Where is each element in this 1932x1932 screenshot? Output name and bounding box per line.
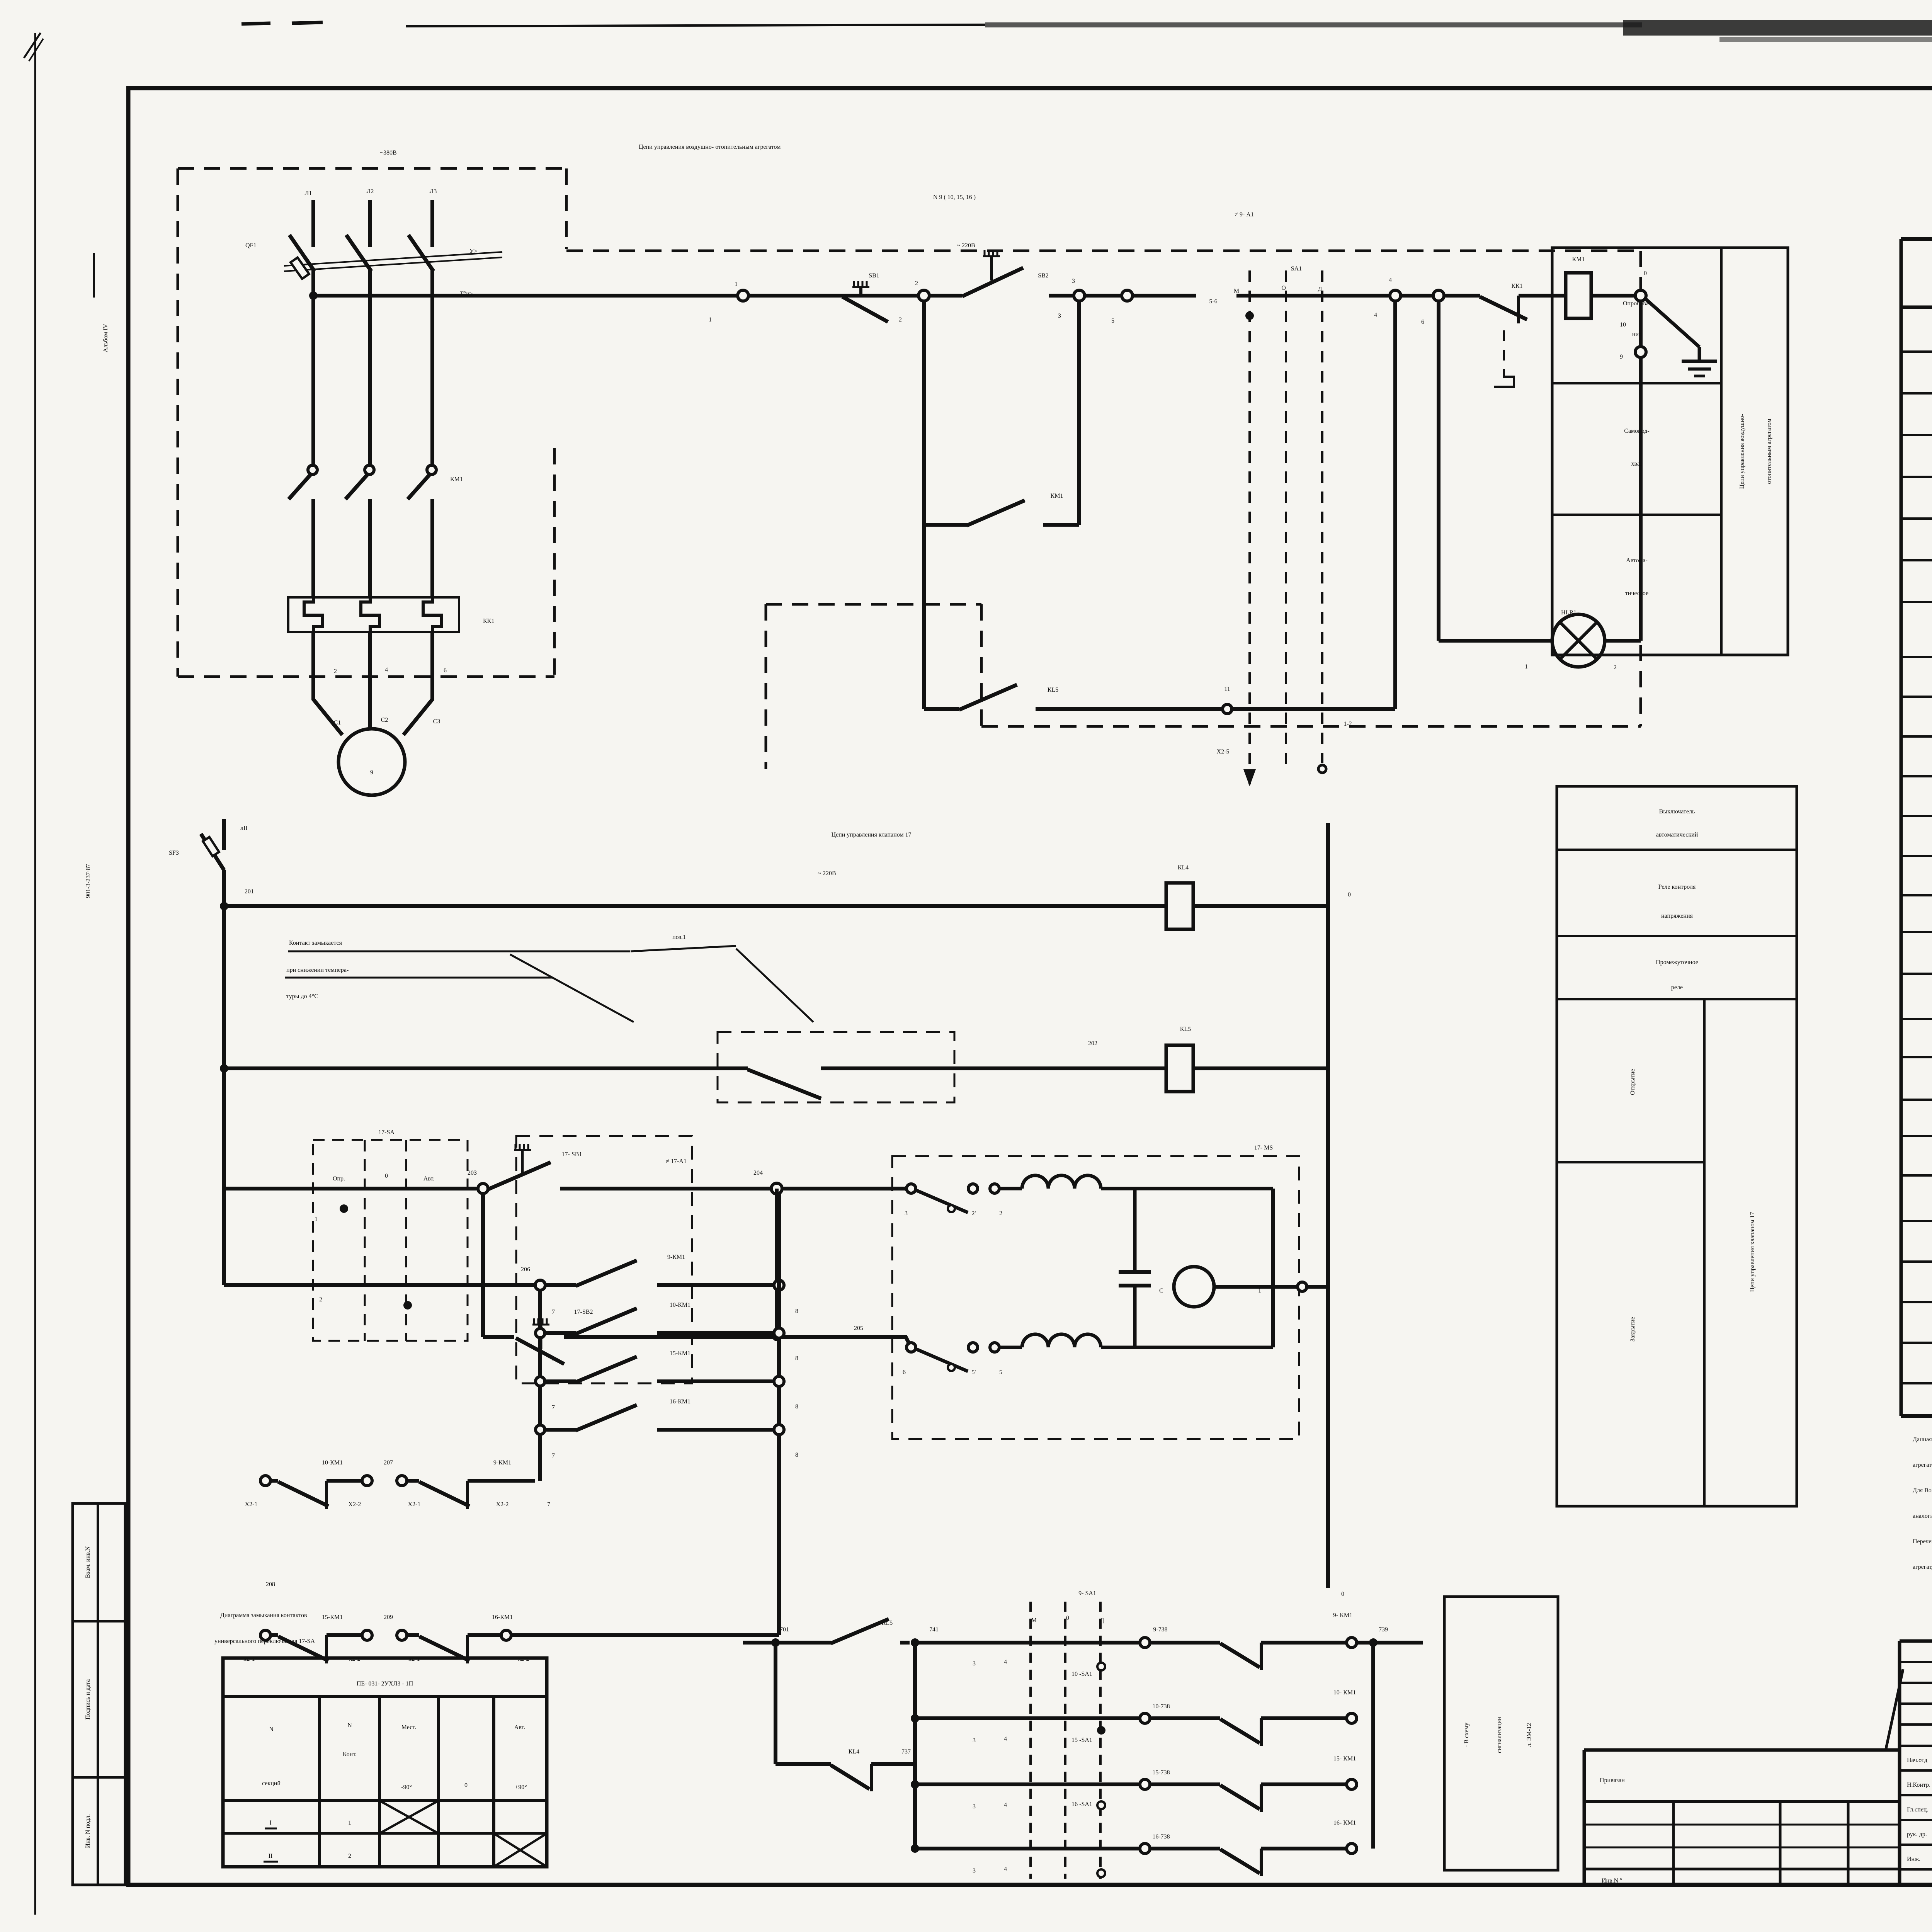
svg-text:Мест.: Мест. [401, 1724, 416, 1731]
breaker QF1 blades [289, 235, 315, 271]
wire KK1 to coil KM1 [1541, 294, 1566, 298]
svg-text:3: 3 [1072, 278, 1075, 284]
wire vertical 204-205 [775, 1189, 779, 1337]
dashed box temperature sensor [718, 1032, 954, 1102]
svg-text:5': 5' [972, 1369, 976, 1376]
svg-text:1: 1 [735, 281, 738, 287]
wire node11 to node4 branch [1232, 707, 1395, 711]
wire phase L1 upper [311, 200, 315, 247]
svg-text:2: 2 [348, 1853, 351, 1859]
circle Д rung4 [1097, 1869, 1105, 1877]
wire node3 down [1077, 301, 1081, 525]
svg-text:9: 9 [1620, 354, 1623, 360]
svg-text:≠ 9- А1: ≠ 9- А1 [1235, 211, 1254, 218]
svg-text:4: 4 [1004, 1736, 1007, 1742]
annotation box Выключатель автоматический etc [1557, 786, 1797, 1506]
svg-text:Авт.: Авт. [514, 1724, 526, 1731]
wire phase L3 upper [430, 200, 434, 247]
svg-text:17- SВ1: 17- SВ1 [562, 1151, 582, 1158]
wire phase L1 lower [311, 632, 315, 696]
svg-text:КL5: КL5 [1180, 1026, 1191, 1032]
svg-text:0: 0 [1341, 1591, 1344, 1597]
signature table [1900, 1639, 1932, 1643]
wire to motor right [403, 696, 432, 735]
node 8 row2 [774, 1280, 784, 1290]
svg-text:напряжения: напряжения [1661, 913, 1693, 919]
contact KL5 aux (NO) [924, 707, 959, 711]
svg-text:SВ2: SВ2 [1038, 272, 1049, 279]
scan dashes top left [241, 23, 270, 24]
signal rung 16-SA1 [911, 1844, 919, 1853]
svg-text:11: 11 [1224, 686, 1230, 692]
svg-text:-90°: -90° [401, 1784, 412, 1791]
wire KL4 to neutral [1193, 904, 1328, 908]
wire node0 down [1639, 301, 1643, 347]
wire lamp to node6 branch [1439, 639, 1552, 643]
contact KL4 (NC) [776, 1762, 831, 1766]
breaker QF1 tie bar [284, 252, 502, 266]
svg-text:≠ 17-А1: ≠ 17-А1 [666, 1158, 687, 1165]
wire 204 to MS contacts [782, 1187, 906, 1190]
svg-text:агрегатом 9 и клапаном на: агрегатом 9 и клапаном на обратном тепло… [1913, 1462, 1932, 1468]
svg-text:С2: С2 [381, 717, 388, 723]
svg-text:2: 2 [1614, 664, 1617, 671]
svg-text:3: 3 [905, 1210, 908, 1217]
svg-text:Цепи управления клапаном 1: Цепи управления клапаном 17 [1749, 1212, 1756, 1292]
svg-text:М: М [1234, 288, 1239, 294]
svg-text:туры до 4°С: туры до 4°С [286, 993, 318, 1000]
wire phase L3 middle [430, 270, 434, 466]
svg-text:КL4: КL4 [849, 1748, 859, 1755]
svg-text:рук. др.: рук. др. [1907, 1831, 1927, 1838]
svg-text:7: 7 [547, 1501, 550, 1508]
MS bottom row contact close [906, 1343, 916, 1352]
wire KL5 to neutral [1193, 1066, 1328, 1070]
svg-text:9-КМ1: 9-КМ1 [493, 1459, 511, 1466]
svg-text:204: 204 [753, 1170, 763, 1176]
svg-text:SF3: SF3 [169, 850, 179, 856]
svg-text:6: 6 [903, 1369, 906, 1376]
node X2-2 end row209 [501, 1630, 511, 1640]
svg-text:1: 1 [709, 316, 712, 323]
svg-text:КК1: КК1 [1511, 283, 1522, 289]
switch SF3 [222, 819, 226, 850]
svg-text:207: 207 [384, 1459, 393, 1466]
wire 205 to MS bottom row [878, 1337, 911, 1347]
svg-text:хват: хват [1631, 461, 1642, 467]
svg-text:10-КМ1: 10-КМ1 [670, 1302, 690, 1308]
svg-text:10: 10 [1620, 321, 1626, 328]
svg-text:секций: секций [262, 1780, 281, 1787]
svg-text:С1: С1 [334, 719, 341, 726]
svg-text:741: 741 [929, 1626, 939, 1633]
row 207 X2 contacts [260, 1476, 270, 1486]
wire node4 to node6 [1401, 294, 1433, 298]
wire left bus down [222, 906, 226, 1285]
svg-text:5: 5 [999, 1369, 1002, 1376]
node 9-738 [1140, 1638, 1150, 1648]
svg-text:701: 701 [780, 1626, 789, 1633]
svg-text:9- КМ1: 9- КМ1 [1333, 1612, 1352, 1619]
svg-text:Цепи управления воздушно- о: Цепи управления воздушно- отопительным а… [639, 144, 781, 150]
switch position dot row1 [340, 1204, 348, 1213]
svg-text:10- КМ1: 10- КМ1 [1333, 1689, 1356, 1696]
svg-text:9-КМ1: 9-КМ1 [667, 1254, 685, 1260]
thermal contact KK1 (NC) [1480, 297, 1527, 320]
coil KM1 [1566, 273, 1591, 318]
wire phase L2 upper [368, 200, 372, 247]
contact 9-KM1 (NO) [545, 1283, 576, 1287]
svg-text:8: 8 [795, 1403, 798, 1410]
svg-text:Автома-: Автома- [1626, 557, 1648, 564]
svg-text:2: 2 [899, 316, 902, 323]
svg-text:О: О [1281, 285, 1286, 291]
svg-text:при снижении темпера-: при снижении темпера- [286, 967, 349, 973]
svg-text:КМ1: КМ1 [450, 476, 463, 483]
dashed box pushbutton station 17-А1 [516, 1136, 692, 1383]
svg-text:2: 2 [319, 1296, 322, 1303]
node 739 [1369, 1638, 1378, 1647]
node 9 [1635, 347, 1646, 357]
bus 202 [220, 1064, 228, 1073]
svg-text:7: 7 [552, 1404, 555, 1411]
wire coil to node 0 [1591, 294, 1635, 298]
svg-text:Перечень элементов дан н: Перечень элементов дан на один воздушно-… [1913, 1538, 1932, 1545]
svg-text:Авт.: Авт. [423, 1175, 435, 1182]
svg-text:Л2: Л2 [367, 188, 374, 195]
svg-text:N: N [269, 1726, 274, 1733]
svg-text:КL5: КL5 [1048, 687, 1058, 693]
MS motor wire right [1214, 1285, 1297, 1289]
svg-text:Л3: Л3 [430, 188, 437, 195]
svg-text:Д: Д [1100, 1617, 1104, 1624]
svg-text:4: 4 [385, 667, 388, 673]
svg-text:206: 206 [521, 1266, 530, 1273]
motor 9 [338, 729, 405, 795]
svg-text:Альбом IV: Альбом IV [102, 324, 109, 352]
binding stamp box Привязан [1584, 1748, 1900, 1752]
svg-text:16 -SА1: 16 -SА1 [1071, 1801, 1092, 1808]
svg-text:205: 205 [854, 1325, 863, 1332]
svg-text:10-КМ1: 10-КМ1 [322, 1459, 343, 1466]
svg-text:2: 2 [334, 668, 337, 675]
row 209 X2 contacts [260, 1630, 270, 1640]
wire phase L3 lower [430, 632, 434, 696]
MS motor [1174, 1267, 1214, 1307]
svg-text:Закрытие: Закрытие [1629, 1317, 1636, 1342]
svg-text:16-738: 16-738 [1152, 1833, 1170, 1840]
svg-text:Опробова-: Опробова- [1623, 300, 1651, 307]
wire node4 down [1393, 301, 1397, 709]
contact 16-KM1 row209 (NC) [419, 1636, 469, 1661]
stamp slash [1886, 1669, 1903, 1750]
actuator 17-MS dashed box [892, 1156, 1299, 1439]
contactor KM1 main contacts [308, 465, 317, 474]
svg-text:I: I [269, 1820, 271, 1826]
svg-text:17-SВ2: 17-SВ2 [574, 1309, 593, 1315]
wire 701 [743, 1641, 831, 1645]
switch SA1 position dot [1245, 311, 1254, 320]
svg-text:0: 0 [385, 1173, 388, 1179]
svg-text:1: 1 [1525, 663, 1528, 670]
vertical V2 206 [538, 1290, 542, 1481]
table ПЕ-031-2УХЛ3-1П [223, 1658, 547, 1867]
MS right vertical [1271, 1189, 1275, 1347]
svg-text:Привязан: Привязан [1600, 1777, 1625, 1784]
svg-text:15-738: 15-738 [1152, 1769, 1170, 1776]
svg-text:- В схему: - В схему [1463, 1723, 1470, 1747]
svg-text:SА1: SА1 [1291, 265, 1302, 272]
lamp HLR1 [1552, 614, 1605, 667]
node 741 [911, 1638, 919, 1647]
wire 739 to box [1357, 1641, 1423, 1645]
svg-text:15- КМ1: 15- КМ1 [1333, 1755, 1356, 1762]
svg-text:202: 202 [1088, 1040, 1097, 1047]
svg-text:5: 5 [1111, 318, 1114, 324]
svg-text:0: 0 [1348, 891, 1351, 898]
svg-text:л. ЭМ-12: л. ЭМ-12 [1526, 1723, 1532, 1747]
svg-text:6: 6 [1421, 319, 1424, 325]
element table frame [1901, 237, 1932, 241]
svg-text:0: 0 [1644, 270, 1647, 277]
svg-text:КL4: КL4 [1178, 864, 1189, 871]
svg-text:Х2-5: Х2-5 [1217, 748, 1230, 755]
svg-text:3: 3 [973, 1867, 976, 1874]
wire 741 vertical [913, 1643, 917, 1849]
wire 741 right [915, 1641, 1140, 1645]
svg-text:N 9 ( 10, 15, 16 ): N 9 ( 10, 15, 16 ) [933, 194, 976, 201]
svg-text:17- МS: 17- МS [1254, 1145, 1273, 1151]
svg-text:2': 2' [972, 1210, 976, 1217]
svg-text:НLR1: НLR1 [1561, 609, 1577, 616]
sheet outer edge left [34, 33, 36, 1915]
svg-text:1-2: 1-2 [1344, 721, 1352, 727]
ground wire [1645, 299, 1699, 347]
node 3 [1074, 290, 1085, 301]
svg-text:Самопод-: Самопод- [1624, 428, 1649, 434]
svg-text:17-SА: 17-SА [378, 1129, 395, 1136]
svg-text:Открытие: Открытие [1629, 1069, 1636, 1095]
vertical V1 204 ladder [777, 1194, 781, 1635]
thermal relay KK1 box [288, 597, 459, 632]
stamp column box [73, 1503, 125, 1885]
svg-text:С3: С3 [433, 718, 440, 725]
pushbutton 17-SB1 (NO) [488, 1162, 551, 1189]
annotation box В схему сигнализации [1444, 1597, 1558, 1870]
svg-text:лII: лII [240, 825, 248, 832]
svg-text:6: 6 [444, 667, 447, 674]
svg-text:3: 3 [973, 1660, 976, 1667]
svg-text:~ 220В: ~ 220В [818, 870, 836, 877]
svg-text:4: 4 [1004, 1866, 1007, 1872]
svg-text:Контакт замыкается: Контакт замыкается [289, 940, 342, 946]
ground symbol [1698, 347, 1701, 361]
svg-text:~ 220В: ~ 220В [957, 242, 975, 249]
svg-text:SВ1: SВ1 [869, 272, 879, 279]
wire node5 to switch SA1 [1133, 294, 1196, 298]
wire phase L2 middle [368, 270, 372, 466]
node X2-1b row207 [397, 1476, 407, 1486]
svg-text:209: 209 [384, 1614, 393, 1621]
switch SA1 dashed columns М О Д [1248, 270, 1251, 786]
svg-text:8: 8 [795, 1452, 798, 1458]
wire 701 vertical [774, 1643, 777, 1764]
wire row209 to V1 [511, 1633, 779, 1637]
svg-text:9- SА1: 9- SА1 [1078, 1590, 1096, 1597]
svg-text:Инв.N º: Инв.N º [1602, 1878, 1622, 1884]
svg-text:8: 8 [795, 1308, 798, 1315]
pushbutton SB2 (NO) [962, 268, 1023, 296]
svg-text:Взам. инв.N: Взам. инв.N [85, 1546, 91, 1578]
coil KL4 [1166, 883, 1193, 929]
contact 9-KM1 signal (NC) [1220, 1643, 1260, 1667]
signal rung 15-SA1 [911, 1780, 919, 1789]
svg-text:Х2-1: Х2-1 [408, 1501, 421, 1508]
pushbutton SB1 (NC) [840, 294, 874, 298]
pushbutton 17-SB2 (NC) [481, 1194, 485, 1337]
svg-text:739: 739 [1379, 1626, 1388, 1633]
wire to motor mid [368, 632, 372, 730]
svg-text:737: 737 [901, 1748, 911, 1755]
svg-text:Гл.спец.: Гл.спец. [1907, 1806, 1928, 1813]
svg-text:3: 3 [973, 1737, 976, 1744]
contact KL5 (NO) [831, 1619, 889, 1643]
coil KL5 [1166, 1045, 1193, 1092]
svg-text:0: 0 [464, 1782, 468, 1789]
svg-text:аналогична.: аналогична. [1913, 1513, 1932, 1519]
MS top winding [999, 1187, 1022, 1190]
wire phase L1 middle [311, 270, 315, 466]
svg-text:Реле контроля: Реле контроля [1658, 884, 1696, 890]
svg-text:N: N [347, 1722, 352, 1729]
ladder rung 10-КМ1 [536, 1328, 545, 1338]
svg-text:КМ1: КМ1 [1051, 493, 1063, 499]
breaker QF1 handle [291, 257, 309, 279]
svg-text:КМ1: КМ1 [1572, 256, 1585, 263]
wire control feed from phase L1 [313, 294, 738, 298]
annotation box Опробование-Самоподхват-Автоматическое [1552, 248, 1788, 655]
signal rung 10-SA1 [911, 1714, 919, 1723]
node 206 [535, 1280, 545, 1290]
svg-text:16-КМ1: 16-КМ1 [670, 1398, 690, 1405]
ladder rung 15-КМ1 [536, 1377, 545, 1386]
temperature contact поз.1 [748, 1070, 821, 1099]
svg-text:0: 0 [1066, 1615, 1069, 1621]
svg-text:Х2-1: Х2-1 [245, 1501, 258, 1508]
svg-text:Подпись и дата: Подпись и дата [85, 1679, 91, 1719]
right bus signal [1371, 1643, 1375, 1849]
svg-text:2: 2 [915, 280, 918, 287]
neutral bus 0 vertical [1326, 823, 1330, 1588]
wire node2 to SB2 [929, 294, 962, 298]
svg-text:М: М [1031, 1617, 1037, 1624]
svg-text:203: 203 [468, 1170, 477, 1176]
row 2 wire [224, 1283, 535, 1287]
row 1 wire [224, 1187, 478, 1190]
svg-text:КL5: КL5 [882, 1620, 893, 1626]
dashed box control panel 9-А1 [566, 250, 1641, 252]
svg-text:поз.1: поз.1 [672, 934, 686, 940]
svg-text:7: 7 [552, 1356, 555, 1362]
svg-text:Х2-2: Х2-2 [349, 1501, 361, 1508]
svg-text:Н.Контр.: Н.Контр. [1907, 1782, 1930, 1788]
node 1 [738, 290, 748, 301]
svg-text:Промежуточное: Промежуточное [1656, 959, 1698, 966]
svg-text:7: 7 [552, 1452, 555, 1459]
contact 9-KM1 row207 (NC) [419, 1482, 469, 1506]
svg-text:сигнализации: сигнализации [1496, 1717, 1503, 1753]
wire node9 to lamp corner [1639, 357, 1643, 641]
thermal release hook [1494, 330, 1514, 387]
svg-text:4: 4 [1389, 277, 1392, 284]
svg-text:Цепи управления клапаном: Цепи управления клапаном 17 [831, 832, 911, 838]
svg-text:+90°: +90° [515, 1784, 527, 1791]
svg-text:4: 4 [1004, 1802, 1007, 1808]
svg-text:Выключатель: Выключатель [1659, 808, 1695, 815]
svg-text:16-КМ1: 16-КМ1 [492, 1614, 513, 1621]
svg-text:901-3-237·87: 901-3-237·87 [85, 864, 92, 898]
contact KM1 aux (NO) [924, 523, 967, 527]
svg-text:Для Воздушно- отопительных: Для Воздушно- отопительных агрегатов 10,… [1913, 1487, 1932, 1494]
svg-text:Д: Д [1318, 286, 1322, 293]
switch SA1 circle Д [1318, 765, 1326, 773]
circle Д rung3 [1097, 1801, 1105, 1809]
svg-text:Л1: Л1 [305, 190, 312, 197]
svg-text:Инж.: Инж. [1907, 1856, 1920, 1862]
svg-text:3: 3 [1058, 313, 1061, 319]
svg-text:~380В: ~380В [380, 150, 396, 156]
svg-text:2: 2 [999, 1210, 1002, 1217]
svg-text:реле: реле [1671, 984, 1683, 991]
svg-text:Диаграмма замыкания контакт: Диаграмма замыкания контактов [220, 1612, 307, 1619]
node X2-2 row207 [362, 1476, 372, 1486]
wire node1 to SB1 [748, 294, 840, 298]
wire 9-738 to contact [1150, 1641, 1220, 1645]
MS top row contact open [906, 1184, 916, 1193]
element table row lines [1901, 350, 1932, 353]
svg-text:10 -SА1: 10 -SА1 [1071, 1671, 1092, 1677]
node 2 [918, 290, 929, 301]
node 4 [1390, 290, 1401, 301]
wire node2 down [922, 301, 926, 709]
svg-text:ние: ние [1632, 331, 1641, 338]
scan smudge band top [985, 22, 1642, 27]
svg-text:15-КМ1: 15-КМ1 [322, 1614, 343, 1621]
svg-text:Нач.отд: Нач.отд [1907, 1757, 1927, 1764]
callout leaders [510, 954, 634, 1022]
svg-text:1: 1 [315, 1216, 318, 1223]
svg-text:отопительным агрегатом: отопительным агрегатом [1766, 418, 1772, 484]
svg-text:универсального переключат: универсального переключателя 17-SА [214, 1638, 315, 1645]
circle Д rung1 [1097, 1663, 1105, 1670]
svg-text:7: 7 [552, 1309, 555, 1315]
svg-text:208: 208 [266, 1581, 275, 1588]
dashed box power panel 9-Я [178, 167, 566, 170]
wire to motor left [313, 696, 342, 735]
wire SB1 to 204 [560, 1187, 771, 1190]
svg-text:201: 201 [245, 888, 254, 895]
svg-text:QF1: QF1 [245, 242, 256, 249]
switch 9-SA1 dashed columns [1029, 1602, 1032, 1879]
svg-text:10-738: 10-738 [1152, 1703, 1170, 1710]
svg-text:Инв. N подл.: Инв. N подл. [85, 1814, 91, 1848]
node 203 [478, 1184, 488, 1194]
wire SB1 to node2 [874, 294, 918, 298]
svg-text:Х2-2: Х2-2 [496, 1501, 509, 1508]
svg-text:8: 8 [795, 1355, 798, 1362]
svg-text:4: 4 [1374, 312, 1377, 318]
svg-text:автоматический: автоматический [1656, 832, 1698, 838]
